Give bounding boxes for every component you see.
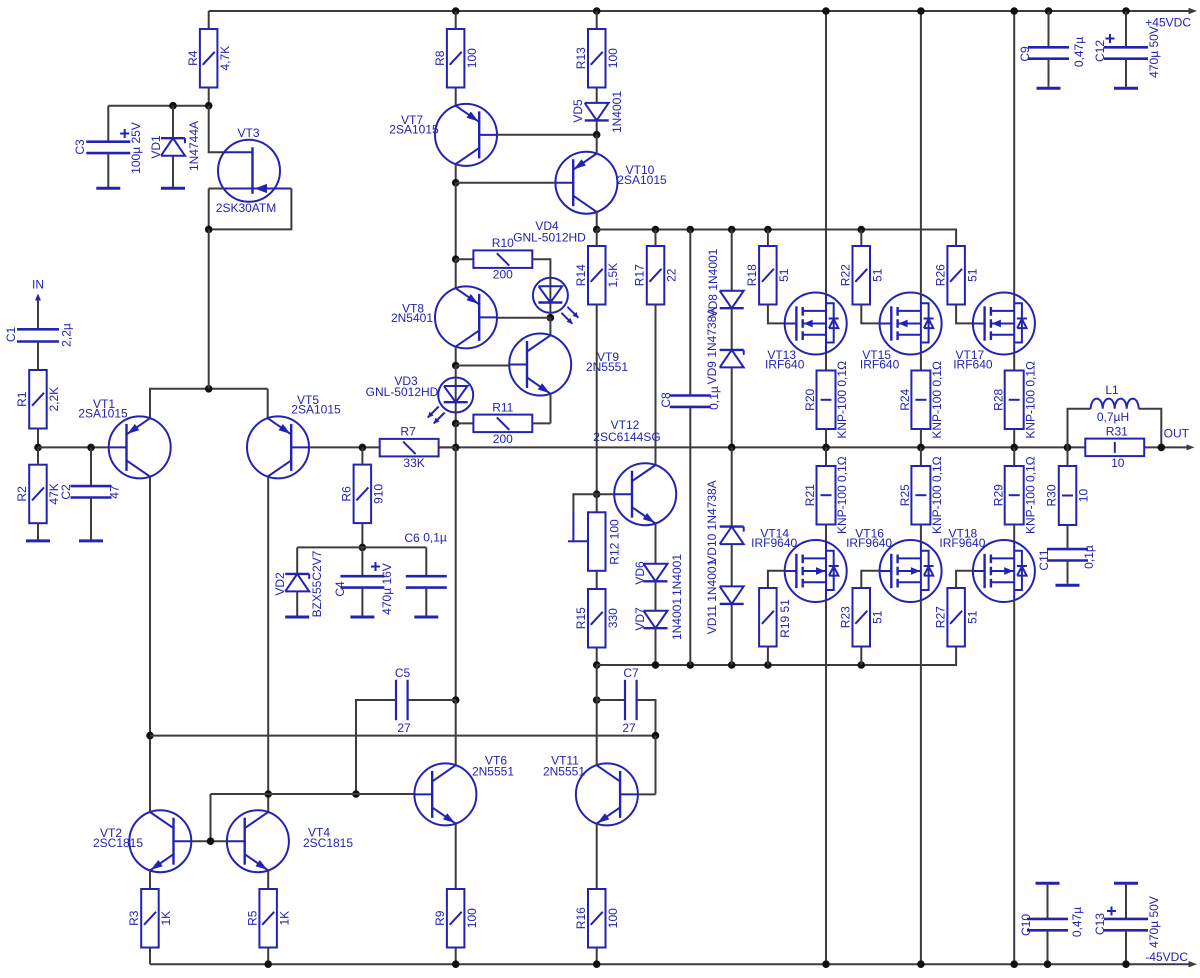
svg-text:R5: R5 bbox=[245, 910, 259, 926]
svg-text:0,1µ: 0,1µ bbox=[707, 386, 721, 410]
zener VD1 bbox=[149, 106, 201, 187]
wire VT1 emitter bbox=[150, 389, 268, 418]
wire R25-VT16 bbox=[920, 525, 922, 542]
mosfet VT15 bbox=[860, 293, 942, 372]
svg-text:2SC1815: 2SC1815 bbox=[303, 836, 353, 850]
mosfet VT14 bbox=[751, 526, 847, 602]
svg-text:27: 27 bbox=[397, 721, 411, 735]
capacitor C8 bbox=[659, 230, 721, 666]
svg-text:KNP-100 0,1Ω: KNP-100 0,1Ω bbox=[930, 361, 944, 439]
wire rail-VD10 bbox=[731, 447, 733, 526]
capacitor C9 bbox=[1018, 11, 1086, 87]
wire R5-rail bbox=[267, 948, 269, 965]
resistor R18 bbox=[745, 230, 791, 305]
resistor R2 bbox=[15, 447, 61, 523]
ground C11 bbox=[1056, 584, 1080, 587]
capacitor C11 bbox=[1037, 525, 1096, 584]
svg-text:VD9 1N4738A: VD9 1N4738A bbox=[705, 308, 719, 385]
resistor R30 bbox=[1045, 447, 1091, 525]
wire VT12 base bbox=[597, 493, 615, 495]
capacitor C5 bbox=[356, 666, 456, 794]
svg-text:C1: C1 bbox=[4, 327, 18, 343]
junction feedback left bbox=[146, 732, 154, 740]
svg-text:VD10 1N4738A: VD10 1N4738A bbox=[705, 480, 719, 563]
resistor R7 bbox=[380, 425, 456, 471]
svg-text:R26: R26 bbox=[933, 264, 947, 286]
junction VT9 base node bbox=[452, 362, 460, 370]
svg-text:C13: C13 bbox=[1093, 913, 1107, 935]
wire R12-R15 bbox=[596, 571, 598, 589]
node IN bbox=[32, 278, 44, 330]
zener VD10 bbox=[705, 480, 744, 563]
junction R17 bus bbox=[652, 226, 660, 234]
diode VD11 bbox=[705, 559, 744, 634]
svg-text:C11: C11 bbox=[1037, 549, 1051, 570]
svg-text:R22: R22 bbox=[839, 264, 853, 286]
svg-text:IN: IN bbox=[32, 278, 44, 292]
junction rail R7 bbox=[452, 444, 460, 452]
svg-text:C3: C3 bbox=[73, 139, 87, 155]
resistor R20 bbox=[803, 361, 849, 439]
svg-text:IRF9640: IRF9640 bbox=[751, 536, 797, 550]
wire VT17 source bbox=[1013, 353, 1015, 371]
svg-text:C2: C2 bbox=[59, 484, 73, 500]
wire VT8 collector bbox=[455, 347, 457, 366]
ground C2 bbox=[79, 539, 103, 542]
svg-text:2SA1015: 2SA1015 bbox=[617, 173, 667, 187]
svg-text:470µ 50V: 470µ 50V bbox=[1147, 896, 1161, 948]
svg-text:2SC6144SG: 2SC6144SG bbox=[593, 430, 660, 444]
wire R28-rail bbox=[1013, 429, 1015, 447]
svg-text:2N5401: 2N5401 bbox=[391, 311, 433, 325]
wire R27-bus bbox=[0, 0, 1, 1]
capacitor C7 bbox=[597, 666, 656, 736]
wire VD6-VD7 bbox=[655, 581, 657, 610]
wire output rail bbox=[438, 446, 1189, 448]
transistor VT12 bbox=[593, 418, 676, 525]
wire feedback line bbox=[150, 735, 656, 737]
junction R22 bus bbox=[858, 226, 866, 234]
wire L1 right bbox=[1139, 409, 1162, 448]
svg-text:KNP-100 0,1Ω: KNP-100 0,1Ω bbox=[835, 456, 849, 534]
wire R9-rail bbox=[455, 948, 457, 965]
svg-text:C5: C5 bbox=[395, 666, 411, 680]
svg-text:C12: C12 bbox=[1093, 40, 1107, 62]
wire R6-bus bbox=[361, 523, 363, 547]
junction R16 rail bbox=[593, 960, 601, 968]
resistor R21 bbox=[803, 447, 849, 534]
svg-text:IRF9640: IRF9640 bbox=[846, 536, 892, 550]
wire -45V bottom rail bbox=[150, 963, 1190, 965]
wire VT13 source bbox=[825, 353, 827, 371]
transistor VT11 bbox=[543, 754, 638, 826]
svg-text:200: 200 bbox=[493, 432, 513, 446]
ground C13 bbox=[1114, 882, 1138, 885]
junction VT13 drain rail bbox=[822, 7, 830, 15]
capacitor C2 bbox=[59, 447, 122, 539]
svg-text:R3: R3 bbox=[127, 910, 141, 926]
wire VT7 base bbox=[497, 134, 597, 136]
wire VT3-emitterbus bbox=[208, 229, 210, 388]
svg-text:R25: R25 bbox=[898, 484, 912, 506]
capacitor C4 bbox=[333, 547, 394, 615]
trimmer R12 wiper bbox=[568, 512, 588, 541]
svg-text:GNL-5012HD: GNL-5012HD bbox=[513, 231, 586, 245]
svg-text:1N4001: 1N4001 bbox=[670, 554, 684, 596]
wire VT4 emitter bbox=[267, 870, 269, 889]
wire VT7 collector bbox=[455, 164, 457, 183]
svg-text:VD11 1N4001: VD11 1N4001 bbox=[705, 559, 719, 634]
junction gate bus left bbox=[593, 226, 601, 234]
wire VT2 base riser bbox=[210, 794, 212, 841]
svg-text:100: 100 bbox=[465, 908, 479, 928]
ground VD1 bbox=[161, 187, 185, 190]
transistor VT7 bbox=[389, 104, 497, 166]
wire R29-VT18 bbox=[1013, 525, 1015, 542]
resistor R27 bbox=[933, 588, 979, 647]
capacitor C10 bbox=[1019, 883, 1084, 964]
zener VD9 bbox=[705, 308, 744, 385]
junction bus VD7 bbox=[652, 661, 660, 669]
mosfet VT17 bbox=[953, 293, 1035, 372]
svg-text:KNP-100 0,1Ω: KNP-100 0,1Ω bbox=[1023, 361, 1037, 439]
svg-text:R21: R21 bbox=[803, 484, 817, 506]
wire VT3 source loop bbox=[209, 189, 292, 230]
wire R21-VT14 bbox=[825, 525, 827, 542]
wire VT11 base riser bbox=[655, 736, 657, 795]
zener VD2 bbox=[273, 547, 324, 617]
resistor R8 bbox=[433, 11, 479, 88]
resistor R6 bbox=[340, 447, 386, 523]
svg-text:VD1: VD1 bbox=[149, 135, 163, 159]
wire VT10 base bbox=[456, 182, 556, 184]
svg-text:R13: R13 bbox=[574, 47, 588, 69]
wire VT6 collector bbox=[455, 700, 457, 765]
wire VT9 base bbox=[456, 365, 510, 367]
svg-text:0,47µ: 0,47µ bbox=[1070, 907, 1084, 937]
resistor R14 bbox=[574, 230, 620, 305]
resistor R4 bbox=[186, 11, 232, 88]
junction R11 tap bbox=[452, 420, 460, 428]
junction bus VD11 bbox=[728, 661, 736, 669]
ground VD2 bbox=[285, 616, 309, 619]
junction C7 left bbox=[593, 696, 601, 704]
svg-text:100: 100 bbox=[465, 48, 479, 68]
svg-text:R10: R10 bbox=[492, 236, 514, 250]
wire upper gate bus bbox=[597, 230, 956, 247]
svg-text:51: 51 bbox=[871, 268, 885, 282]
svg-text:-45VDC: -45VDC bbox=[1145, 950, 1188, 964]
svg-text:R11: R11 bbox=[492, 400, 513, 414]
wire VT9 emitter bbox=[550, 394, 552, 424]
junction rail VD9 bbox=[728, 444, 736, 452]
svg-text:R2: R2 bbox=[15, 486, 29, 502]
capacitor C1 bbox=[4, 323, 73, 347]
resistor R31 bbox=[1085, 424, 1144, 470]
wire VD9-rail bbox=[731, 367, 733, 447]
svg-text:2,2µ: 2,2µ bbox=[60, 323, 74, 347]
wire VT2-VT4 base bbox=[191, 840, 227, 842]
junction feedback right bbox=[652, 732, 660, 740]
transistor VT8 bbox=[391, 286, 497, 348]
svg-text:R16: R16 bbox=[574, 907, 588, 929]
svg-text:KNP-100 0,1Ω: KNP-100 0,1Ω bbox=[835, 361, 849, 439]
resistor R23 bbox=[839, 588, 885, 647]
junction R20 rail bbox=[822, 444, 830, 452]
junction C2 tap bbox=[87, 444, 95, 452]
wire VD7-bus bbox=[655, 628, 657, 665]
svg-text:IRF640: IRF640 bbox=[765, 357, 805, 371]
junction VD1 node bbox=[169, 102, 177, 110]
transistor VT4 bbox=[227, 810, 353, 872]
wire zener node bbox=[108, 105, 208, 107]
svg-text:R8: R8 bbox=[433, 50, 447, 66]
svg-text:R29: R29 bbox=[991, 484, 1005, 506]
junction VD4 node bbox=[547, 314, 555, 322]
junction VT14 drain rail bbox=[822, 960, 830, 968]
svg-text:10: 10 bbox=[1077, 489, 1091, 503]
resistor R24 bbox=[898, 361, 944, 439]
junction R18 bus bbox=[764, 226, 772, 234]
wire VD3-R11 bbox=[455, 412, 457, 424]
wire VD4-node bbox=[549, 312, 551, 318]
svg-text:R20: R20 bbox=[803, 388, 817, 410]
mosfet VT16 bbox=[846, 526, 942, 602]
wire col-R10 bbox=[455, 183, 457, 260]
svg-text:C8: C8 bbox=[659, 392, 673, 408]
svg-text:1K: 1K bbox=[277, 911, 291, 926]
svg-text:R15: R15 bbox=[574, 607, 588, 629]
wire VT14 drain bbox=[825, 600, 827, 964]
svg-text:2SA1015: 2SA1015 bbox=[78, 407, 128, 421]
wire VT18 drain bbox=[1013, 600, 1015, 964]
junction bus R23 bbox=[858, 661, 866, 669]
LED VD3 bbox=[366, 374, 474, 424]
svg-text:100µ 25V: 100µ 25V bbox=[129, 122, 143, 174]
svg-text:910: 910 bbox=[372, 484, 386, 504]
svg-text:470µ 50V: 470µ 50V bbox=[1147, 26, 1161, 78]
wire VT6 emitter bbox=[455, 824, 457, 889]
capacitor C6 bbox=[404, 531, 447, 616]
junction R9 rail bbox=[452, 960, 460, 968]
svg-text:200: 200 bbox=[493, 268, 513, 282]
resistor R12 bbox=[588, 494, 622, 571]
wire VT13 drain bbox=[825, 11, 827, 295]
wire R8-VT7 bbox=[455, 88, 457, 106]
diode VD6 bbox=[633, 554, 684, 596]
junction C13 rail bbox=[1122, 960, 1130, 968]
svg-text:R14: R14 bbox=[574, 264, 588, 286]
label +45VDC bbox=[1145, 8, 1197, 30]
resistor R28 bbox=[991, 361, 1037, 439]
junction C5 right bbox=[452, 696, 460, 704]
svg-text:R30: R30 bbox=[1045, 484, 1059, 506]
wire VT16 drain bbox=[920, 600, 922, 964]
wire col-rail bbox=[455, 423, 457, 447]
junction VT4 coll bus bbox=[264, 790, 272, 798]
junction R10 tap bbox=[452, 255, 460, 263]
junction gate bus C8 bbox=[0, 0, 1, 1]
wire VT12 emitter bbox=[655, 523, 657, 563]
svg-text:VT3: VT3 bbox=[237, 126, 259, 140]
wire bus-VD8 bbox=[731, 230, 733, 291]
junction C10 rail bbox=[1044, 960, 1052, 968]
svg-text:OUT: OUT bbox=[1164, 427, 1190, 441]
wire VT12 base hook bbox=[573, 494, 596, 512]
svg-text:R17: R17 bbox=[633, 264, 647, 286]
junction R1/R2 bbox=[34, 444, 42, 452]
mosfet VT18 bbox=[939, 526, 1035, 602]
diode VD5 bbox=[571, 88, 624, 135]
wire R17-VT12coll bbox=[655, 305, 657, 466]
junction VT17 drain rail bbox=[1010, 7, 1018, 15]
junction VT12 base node bbox=[593, 490, 601, 498]
svg-text:C4: C4 bbox=[333, 581, 347, 597]
wire R1-node bbox=[37, 429, 39, 448]
svg-text:R1: R1 bbox=[15, 391, 29, 407]
junction C4 bus bbox=[359, 544, 367, 552]
svg-text:1K: 1K bbox=[159, 911, 173, 926]
svg-text:IRF9640: IRF9640 bbox=[939, 536, 985, 550]
junction C9 rail bbox=[1045, 7, 1053, 15]
ground C12 bbox=[1114, 87, 1138, 90]
ground C9 bbox=[1037, 87, 1061, 90]
svg-text:R7: R7 bbox=[400, 425, 416, 439]
wire R16-rail bbox=[596, 948, 598, 965]
resistor R10 bbox=[456, 236, 551, 282]
ground C4 bbox=[350, 616, 374, 619]
wire bias bus bbox=[297, 546, 426, 548]
svg-text:47: 47 bbox=[108, 485, 122, 499]
wire VT15 source bbox=[920, 353, 922, 371]
wire VT5 emitter bbox=[267, 389, 269, 418]
svg-text:R24: R24 bbox=[898, 388, 912, 410]
wire L1 left bbox=[1068, 409, 1091, 448]
transistor VT10 bbox=[555, 152, 667, 214]
resistor R16 bbox=[574, 889, 620, 948]
ground C10 bbox=[1036, 882, 1060, 885]
svg-text:C7: C7 bbox=[623, 666, 639, 680]
wire R26-gate bbox=[956, 305, 973, 324]
junction VD5 node bbox=[593, 131, 601, 139]
transistor VT2 bbox=[93, 810, 191, 872]
junction VT16 drain rail bbox=[917, 960, 925, 968]
wire R3-rail bbox=[149, 948, 151, 965]
wire VT5 base bbox=[309, 446, 380, 448]
svg-text:VD2: VD2 bbox=[273, 572, 287, 596]
svg-text:33K: 33K bbox=[403, 456, 424, 470]
junction R28 rail bbox=[1010, 444, 1018, 452]
junction bus R19 bbox=[764, 661, 772, 669]
resistor R19 bbox=[759, 588, 792, 647]
resistor R15 bbox=[574, 589, 620, 648]
wire R2-gnd bbox=[37, 523, 39, 539]
resistor R17 bbox=[633, 230, 679, 305]
wire VT11 emitter bbox=[596, 824, 598, 889]
wire VT3 drain bbox=[209, 106, 224, 153]
resistor R26 bbox=[933, 246, 979, 305]
svg-text:1N4744A: 1N4744A bbox=[187, 121, 201, 171]
svg-text:51: 51 bbox=[871, 610, 885, 624]
junction R26 bus bbox=[0, 0, 1, 1]
svg-text:1N4001: 1N4001 bbox=[610, 91, 624, 133]
svg-text:1,5K: 1,5K bbox=[606, 263, 620, 288]
junction emitter bus bbox=[205, 385, 213, 393]
svg-text:C9: C9 bbox=[1018, 46, 1032, 62]
junction VT15 drain rail bbox=[917, 7, 925, 15]
svg-text:R12 100: R12 100 bbox=[608, 519, 622, 565]
svg-text:IRF640: IRF640 bbox=[953, 357, 993, 371]
junction R8 rail bbox=[452, 7, 460, 15]
wire R15-bus bbox=[596, 648, 598, 666]
wire VT2 emitter bbox=[149, 870, 151, 889]
wire VT10 collector bbox=[596, 212, 598, 230]
svg-text:1N4001: 1N4001 bbox=[670, 598, 684, 640]
wire R27-gate bbox=[956, 571, 973, 588]
svg-text:R27: R27 bbox=[933, 606, 947, 628]
svg-text:R19 51: R19 51 bbox=[778, 599, 792, 638]
resistor R11 bbox=[456, 400, 551, 446]
svg-text:2N5551: 2N5551 bbox=[472, 765, 514, 779]
svg-text:VD7: VD7 bbox=[633, 607, 647, 631]
wire R23-bus bbox=[860, 647, 862, 666]
transistor VT3 JFET bbox=[216, 126, 292, 215]
wire VT17 drain bbox=[1013, 11, 1015, 295]
wire input node bbox=[38, 446, 109, 448]
svg-text:VD5: VD5 bbox=[571, 99, 585, 123]
svg-text:10: 10 bbox=[1111, 456, 1125, 470]
wire R23-gate bbox=[861, 571, 879, 588]
svg-text:100: 100 bbox=[606, 908, 620, 928]
svg-text:51: 51 bbox=[965, 268, 979, 282]
wire VD8-VD9 bbox=[731, 308, 733, 350]
transistor VT9 bbox=[509, 334, 628, 396]
wire R19-bus bbox=[767, 647, 769, 666]
capacitor C13 bbox=[1093, 883, 1161, 964]
svg-text:R31: R31 bbox=[1106, 424, 1128, 438]
wire VD5-VT10 bbox=[596, 135, 598, 154]
junction L1 left bbox=[1064, 444, 1072, 452]
resistor R5 bbox=[245, 889, 291, 948]
svg-text:R23: R23 bbox=[839, 606, 853, 628]
label OUT bbox=[1164, 427, 1195, 451]
inductor L1 bbox=[1091, 383, 1139, 424]
wire VD11-bus bbox=[731, 604, 733, 665]
svg-text:0,1µ: 0,1µ bbox=[423, 531, 447, 545]
svg-text:2N5551: 2N5551 bbox=[586, 360, 628, 374]
wire R19-gate bbox=[768, 571, 785, 588]
junction R4 node bbox=[205, 102, 213, 110]
junction VT5 base node bbox=[359, 444, 367, 452]
junction C5 bus bbox=[352, 790, 360, 798]
junction R5 rail bbox=[264, 960, 272, 968]
svg-text:KNP-100 0,1Ω: KNP-100 0,1Ω bbox=[1023, 456, 1037, 534]
svg-text:IRF640: IRF640 bbox=[860, 357, 900, 371]
wire rail-VT6coll bbox=[455, 447, 457, 700]
svg-text:R28: R28 bbox=[991, 388, 1005, 410]
wire VT5 collector bbox=[267, 477, 269, 812]
wire col-VD3 bbox=[455, 366, 457, 379]
mosfet VT13 bbox=[765, 293, 847, 372]
svg-text:51: 51 bbox=[777, 268, 791, 282]
resistor R13 bbox=[574, 11, 620, 88]
svg-text:R6: R6 bbox=[340, 486, 354, 502]
svg-text:100: 100 bbox=[606, 48, 620, 68]
wire VT11 base bbox=[638, 793, 656, 795]
svg-text:2SK30ATM: 2SK30ATM bbox=[216, 201, 276, 215]
svg-text:R9: R9 bbox=[433, 910, 447, 926]
resistor R29 bbox=[991, 447, 1037, 534]
